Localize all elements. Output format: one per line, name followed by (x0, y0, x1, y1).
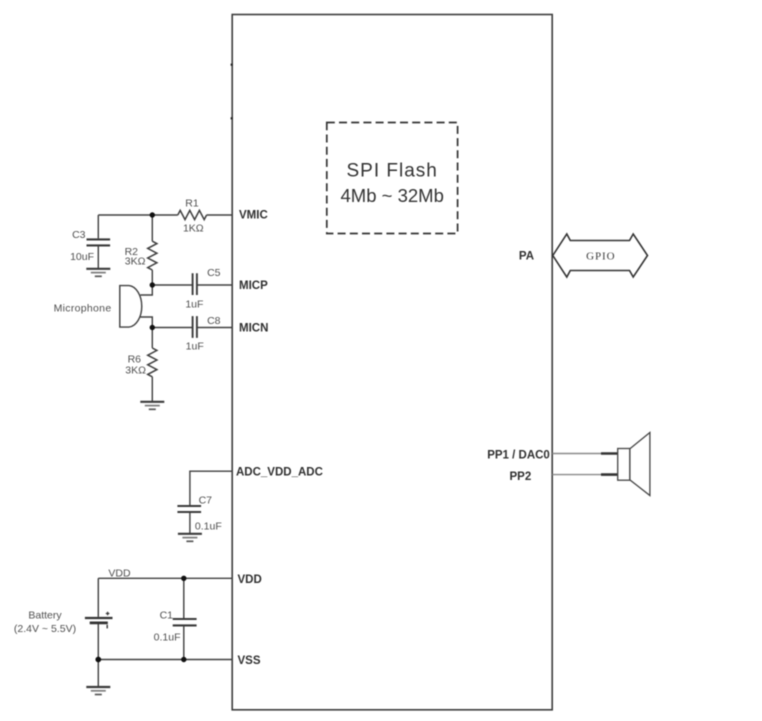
svg-text:VDD: VDD (238, 574, 262, 586)
svg-text:0.1uF: 0.1uF (154, 632, 181, 644)
svg-text:R1: R1 (185, 197, 199, 209)
svg-text:VDD: VDD (108, 567, 131, 579)
svg-text:3KΩ: 3KΩ (125, 256, 146, 268)
svg-text:0.1uF: 0.1uF (195, 520, 222, 532)
svg-text:10uF: 10uF (70, 251, 94, 263)
svg-text:C3: C3 (72, 229, 86, 241)
svg-text:PP1 / DAC0: PP1 / DAC0 (487, 450, 550, 462)
svg-text:VSS: VSS (238, 655, 261, 667)
svg-text:MICP: MICP (239, 280, 268, 292)
svg-text:SPI Flash: SPI Flash (347, 161, 438, 182)
svg-text:3KΩ: 3KΩ (125, 364, 146, 376)
svg-text:VMIC: VMIC (239, 210, 268, 222)
svg-text:1uF: 1uF (186, 341, 204, 353)
svg-text:4Mb ~ 32Mb: 4Mb ~ 32Mb (341, 185, 444, 206)
svg-text:PP2: PP2 (510, 471, 532, 483)
svg-text:MICN: MICN (239, 323, 268, 335)
svg-text:PA: PA (519, 251, 534, 263)
svg-text:Battery: Battery (28, 609, 62, 621)
svg-text:1KΩ: 1KΩ (183, 223, 204, 235)
svg-text:C8: C8 (207, 315, 221, 327)
svg-text:(2.4V ~ 5.5V): (2.4V ~ 5.5V) (14, 623, 76, 635)
svg-text:Microphone: Microphone (54, 303, 112, 315)
svg-text:ADC_VDD_ADC: ADC_VDD_ADC (236, 467, 323, 479)
svg-text:C5: C5 (207, 267, 221, 279)
svg-text:C1: C1 (160, 609, 174, 621)
svg-text:GPIO: GPIO (586, 250, 615, 262)
svg-text:1uF: 1uF (185, 299, 203, 311)
svg-text:C7: C7 (199, 494, 213, 506)
